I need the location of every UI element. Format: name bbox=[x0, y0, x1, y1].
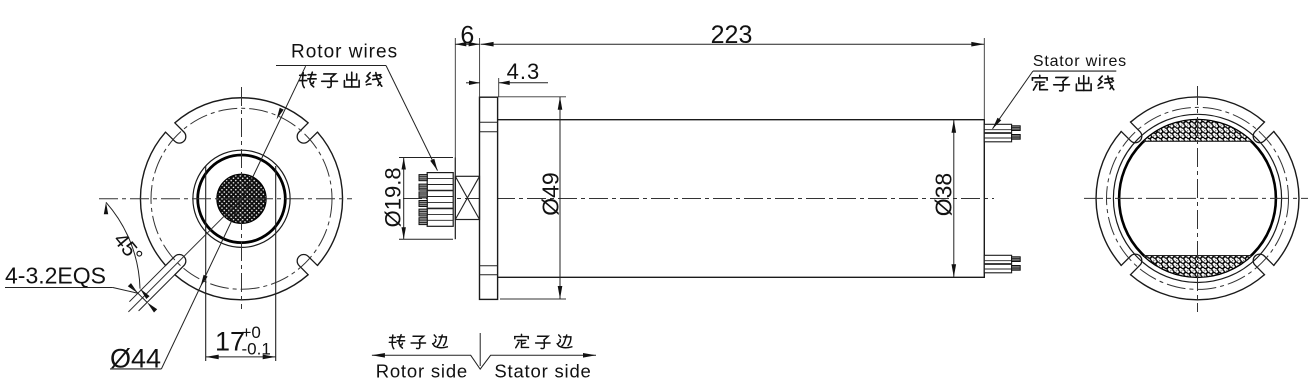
flange step line top outer bbox=[480, 121, 498, 123]
223 dim line bbox=[481, 43, 985, 45]
rotor wires right leader arrow bbox=[430, 159, 437, 171]
stator side arrow bbox=[583, 353, 596, 358]
underline 4-3.2EQS bbox=[5, 287, 113, 289]
45 degree angular dimension arc bbox=[106, 202, 140, 288]
dimension 17 +0/-0.1 bbox=[206, 356, 276, 358]
left view vertical centerline bbox=[241, 87, 243, 309]
main body cylinder Ø38 x 223 bbox=[498, 120, 985, 278]
stator wire bundle bbox=[984, 255, 1011, 272]
stator wire stub bbox=[1012, 126, 1021, 131]
right view top brush band (stippled) bbox=[1144, 120, 1251, 141]
underline Ø44 bbox=[110, 368, 161, 370]
4.3 ext line right bbox=[498, 78, 500, 97]
stator wire stub bbox=[1012, 135, 1021, 140]
left view bolt circle Ø44 (dash-dot) bbox=[151, 108, 332, 289]
notch slot at 45 deg bbox=[1253, 122, 1274, 143]
svg-text:223: 223 bbox=[711, 21, 753, 49]
connector wire layer line bbox=[427, 207, 453, 209]
rotor wire stub bbox=[419, 184, 427, 190]
svg-text:-0.1: -0.1 bbox=[242, 340, 271, 359]
label 定子出线 bbox=[1032, 75, 1047, 90]
connector wire layer line bbox=[427, 201, 453, 203]
rotor wires left leader arrow bbox=[277, 108, 284, 120]
rotor wire stub bbox=[419, 201, 427, 207]
rotor wires leader to left view center bbox=[243, 66, 306, 197]
rotor wires underline bbox=[276, 65, 386, 67]
svg-text:Rotor side: Rotor side bbox=[376, 361, 468, 382]
notch slot at 135 deg bbox=[165, 122, 186, 143]
rotor wires leader to side view connector bbox=[386, 66, 438, 171]
Ø19.8 dim line bbox=[403, 158, 405, 240]
notch slot at 315 deg bbox=[1253, 254, 1274, 275]
right view horizontal centerline bbox=[1084, 197, 1308, 199]
connector wire layer line bbox=[427, 190, 453, 192]
connector wire layer line bbox=[427, 219, 453, 221]
3.2 width dim arrow upper + leader from 4-3.2EQS label bbox=[113, 288, 138, 294]
svg-text:4.3: 4.3 bbox=[507, 59, 541, 84]
svg-text:Stator wires: Stator wires bbox=[1033, 53, 1127, 70]
label 定子边 bbox=[515, 334, 529, 347]
coupling cross diagonal 1 bbox=[455, 176, 479, 219]
right view top chord line bbox=[1144, 140, 1251, 142]
223 ext line right bbox=[983, 38, 985, 120]
Ø49 dim line bbox=[559, 97, 561, 299]
rotor wire connector block bbox=[427, 173, 453, 227]
svg-text:4-3.2EQS: 4-3.2EQS bbox=[5, 263, 106, 289]
connector wire layer line bbox=[427, 184, 453, 186]
svg-text:Ø38: Ø38 bbox=[931, 173, 957, 216]
right view bottom chord line bbox=[1144, 255, 1251, 257]
left view horizontal centerline bbox=[99, 198, 352, 200]
notch slot at 45 deg bbox=[297, 122, 318, 143]
4.3 arrow right bbox=[499, 81, 510, 85]
svg-text:6: 6 bbox=[460, 22, 474, 50]
stator wires underline bbox=[1033, 70, 1116, 72]
left view outer circle Ø49 with 4 notches bbox=[140, 98, 342, 300]
rotor side arrow bbox=[372, 353, 385, 358]
left flat edge / 17-dim extension right bbox=[275, 166, 277, 361]
right view vertical centerline bbox=[1197, 86, 1199, 312]
stator wire stub bbox=[1012, 257, 1021, 262]
flange step line bottom inner bbox=[480, 265, 498, 267]
side view horizontal centerline bbox=[403, 198, 994, 200]
slot width extension line upper bbox=[129, 264, 167, 302]
rotor side / stator side divider bbox=[479, 333, 481, 366]
flange step line top inner bbox=[480, 131, 498, 133]
Ø19.8 ext line top bbox=[399, 157, 453, 159]
Ø19.8 ext line bottom bbox=[399, 238, 453, 240]
connector wire layer line bbox=[427, 196, 453, 198]
svg-text:Rotor wires: Rotor wires bbox=[291, 41, 398, 62]
flange step line bottom outer bbox=[480, 274, 498, 276]
right view bolt circle (dash-dot) bbox=[1107, 107, 1289, 289]
stator wire bundle bbox=[984, 124, 1011, 142]
Ø49 ext line bottom bbox=[500, 298, 566, 300]
coupling cross diagonal 2 bbox=[455, 176, 479, 219]
right view bore circle (thick) bbox=[1119, 120, 1276, 277]
rotor wire stub bbox=[419, 218, 427, 225]
Ø44 leader arrow bbox=[201, 275, 208, 287]
shaft coupling box with cross bbox=[455, 176, 479, 219]
right view bore outer circle bbox=[1113, 114, 1281, 282]
rotor wire stub bbox=[419, 209, 427, 216]
Ø38 dim line bbox=[953, 120, 955, 278]
Ø44 leader to bolt circle bbox=[161, 197, 243, 369]
slot width extension line lower bbox=[139, 273, 177, 311]
45 deg arc arrow bottom bbox=[140, 289, 150, 299]
3.2 width dim arrow lower bbox=[132, 287, 148, 303]
6 ext line right bbox=[479, 38, 481, 97]
4.3 arrow left bbox=[469, 81, 480, 85]
6 dim line bbox=[455, 43, 479, 45]
svg-text:Ø19.8: Ø19.8 bbox=[381, 167, 406, 227]
notch slot at 225 deg bbox=[165, 254, 186, 275]
left view inner ring outer circle bbox=[193, 150, 290, 247]
svg-text:Stator side: Stator side bbox=[494, 361, 591, 382]
stator wires leader bbox=[993, 71, 1033, 129]
notch slot at 225 deg bbox=[1121, 254, 1142, 275]
label 转子出线 bbox=[299, 72, 316, 87]
6 ext line left bbox=[454, 38, 456, 176]
notch slot at 135 deg bbox=[1121, 122, 1142, 143]
svg-text:Ø49: Ø49 bbox=[538, 172, 564, 215]
45 deg arc arrow top bbox=[104, 202, 108, 214]
right view bottom brush band (stippled) bbox=[1144, 256, 1251, 277]
Ø49 ext line top bbox=[498, 96, 566, 98]
connector wire layer line bbox=[427, 178, 453, 180]
stator wires leader arrow bbox=[993, 118, 1002, 129]
right view outer circle Ø49 with 4 notches bbox=[1096, 97, 1299, 300]
rotor wire stub bbox=[419, 175, 427, 181]
left flat edge / 17-dim extension left bbox=[205, 166, 207, 361]
notch slot at 315 deg bbox=[297, 254, 318, 275]
left view rotor wire bundle (knurled fill) bbox=[217, 174, 266, 223]
label 转子边 bbox=[389, 335, 404, 349]
flange plate Ø49 x 4.3 bbox=[480, 97, 498, 299]
connector wire layer line bbox=[427, 213, 453, 215]
left view bore circle (thick) bbox=[198, 155, 286, 243]
rotor wire stub bbox=[419, 192, 427, 198]
stator wire stub bbox=[1012, 266, 1021, 271]
slot axis ray 225 deg bbox=[128, 199, 241, 312]
connector mounting plate Ø19.8 edge bbox=[454, 158, 456, 240]
